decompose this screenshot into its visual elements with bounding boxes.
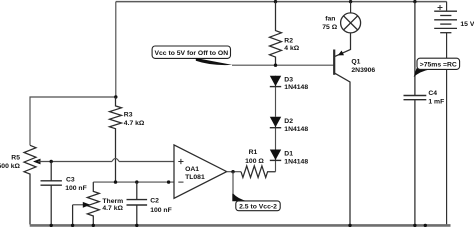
wire D2 to D1 (275, 128, 277, 150)
op-amp OA1 (174, 145, 227, 198)
node bus C2 (135, 224, 138, 227)
svg-text:R3: R3 (124, 112, 133, 119)
node bus stray (424, 224, 427, 227)
svg-text:4.7 kΩ: 4.7 kΩ (124, 120, 145, 127)
svg-text:R1: R1 (249, 149, 258, 156)
svg-text:Vcc to 5V for Off to ON: Vcc to 5V for Off to ON (154, 50, 228, 57)
svg-text:D1: D1 (284, 151, 293, 158)
wire top rail (116, 1, 447, 3)
svg-text:100 nF: 100 nF (65, 185, 87, 192)
node bus C3 (50, 224, 53, 227)
capacitor C2 (127, 182, 172, 225)
wire R1 to D1 (275, 161, 277, 172)
wire horizontal to R5 (30, 97, 116, 145)
wire ground bus (30, 224, 451, 227)
svg-text:>75ms =RC: >75ms =RC (420, 62, 457, 69)
wire D3 to D2 (275, 87, 277, 117)
svg-text:R2: R2 (284, 37, 293, 44)
svg-text:D2: D2 (284, 118, 293, 125)
capacitor C4 (404, 2, 445, 226)
capacitor C3 (41, 162, 87, 226)
wire hop (R3 lead over + wire) (112, 158, 119, 161)
wire op-amp noninverting input (38, 161, 174, 163)
svg-text:75 Ω: 75 Ω (322, 24, 337, 31)
svg-text:4.7 kΩ: 4.7 kΩ (102, 205, 123, 212)
resistor R2 (270, 2, 300, 66)
svg-text:D3: D3 (284, 76, 293, 83)
node op-amp output (231, 170, 234, 173)
node R2 top rail (274, 0, 277, 3)
svg-text:100 Ω: 100 Ω (245, 158, 264, 165)
node junction R3 top (114, 95, 117, 98)
svg-text:1N4148: 1N4148 (284, 84, 308, 91)
node C3 top (50, 160, 53, 163)
svg-text:1N4148: 1N4148 (284, 159, 308, 166)
svg-text:R5: R5 (11, 154, 20, 161)
node bus C4 (413, 224, 416, 227)
svg-text:Q1: Q1 (351, 59, 360, 66)
svg-text:2N3906: 2N3906 (351, 67, 375, 74)
node bus therm wiper (71, 224, 74, 227)
resistor R3 (110, 97, 145, 182)
svg-text:Therm: Therm (102, 198, 123, 205)
svg-text:100 nF: 100 nF (150, 207, 172, 214)
wire Q1 base (232, 64, 334, 66)
svg-text:500 kΩ: 500 kΩ (0, 163, 21, 170)
svg-text:2.5 to Vcc-2: 2.5 to Vcc-2 (239, 203, 277, 210)
svg-text:1N4148: 1N4148 (284, 126, 308, 133)
node R3 bottom on inverting wire (114, 180, 117, 183)
diode D1 (270, 150, 309, 166)
svg-text:15 V: 15 V (460, 21, 474, 28)
node bus therm (92, 224, 95, 227)
svg-text:OA1: OA1 (185, 166, 199, 173)
lamp fan (322, 2, 360, 33)
resistor R1 (241, 149, 276, 178)
svg-text:C2: C2 (150, 197, 159, 204)
svg-text:4 kΩ: 4 kΩ (284, 45, 299, 52)
node C2 top (135, 180, 138, 183)
svg-text:TL081: TL081 (185, 174, 205, 181)
callout >75ms =RC (414, 58, 460, 77)
thermistor Therm (73, 182, 124, 225)
wire output stub down (232, 172, 234, 195)
callout Vcc to 5V for Off to ON (152, 46, 232, 65)
wire left vertical from top rail (115, 2, 117, 97)
callout 2.5 to Vcc-2 (232, 194, 280, 211)
node C4 top rail (413, 0, 416, 3)
potentiometer R5 (0, 145, 41, 224)
battery V1 15V (434, 2, 474, 226)
svg-text:C3: C3 (66, 177, 75, 184)
wire op-amp output (227, 171, 241, 173)
node stray junction on inverting wire (167, 180, 170, 183)
node diode stack top (274, 63, 277, 66)
svg-text:1 mF: 1 mF (428, 99, 444, 106)
diode D3 (270, 76, 309, 91)
svg-text:fan: fan (325, 16, 335, 23)
diode D2 (270, 117, 309, 133)
transistor Q1 (334, 33, 375, 225)
svg-text:C4: C4 (428, 90, 437, 97)
node bus Q1 collector (348, 224, 351, 227)
node fan top rail (349, 0, 352, 3)
wire op-amp inverting input (93, 181, 173, 183)
